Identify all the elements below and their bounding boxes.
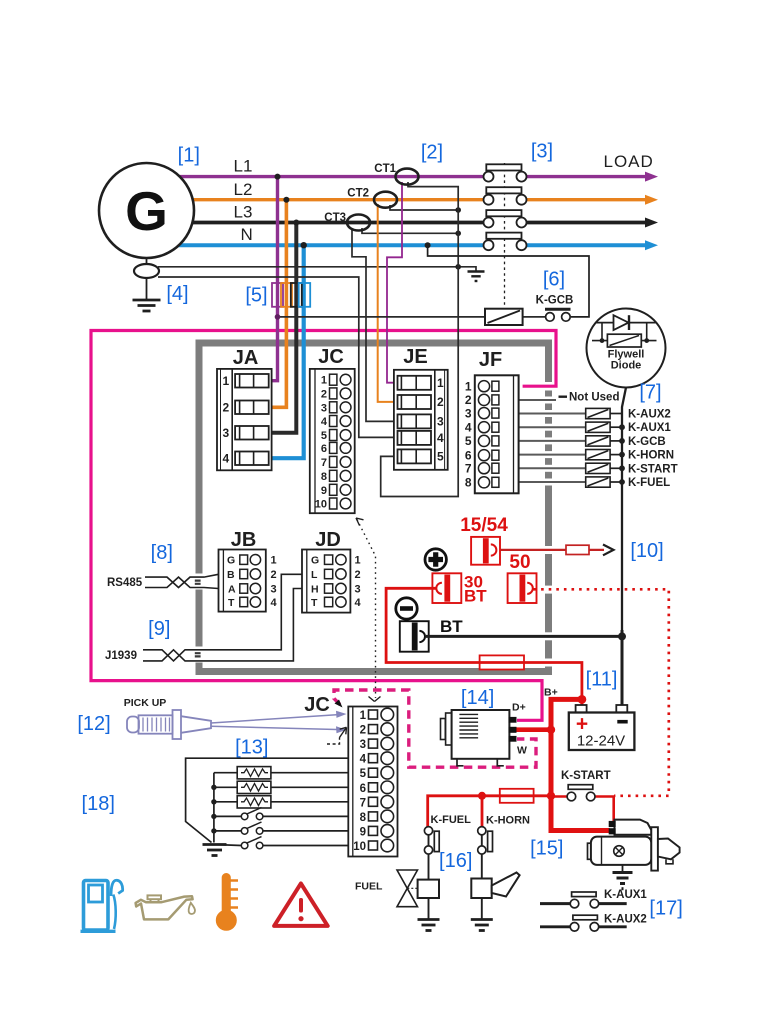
wire+ground below fuel solenoid xyxy=(428,898,430,919)
wire: L1 drop to JA1 through fuse xyxy=(272,177,278,381)
wire: CT3 secondary S2 to JE3 xyxy=(352,228,395,421)
connector JB xyxy=(219,550,266,612)
wire: JF7 to K-START coil xyxy=(519,467,586,469)
reference arrow 13 xyxy=(327,727,347,744)
junction L1 drop xyxy=(275,174,281,180)
resistor R3 (sender) to JC7 xyxy=(214,801,348,803)
svg-text:L1: L1 xyxy=(234,157,253,176)
LOAD arrow L3 xyxy=(645,218,658,228)
svg-text:8: 8 xyxy=(465,476,472,490)
contactor GCB pole 4 xyxy=(484,233,527,251)
wire: diode circle to relay common rail xyxy=(622,388,626,706)
svg-text:FUEL: FUEL xyxy=(355,881,383,893)
terminal 15/54 xyxy=(460,515,508,565)
svg-text:G: G xyxy=(227,555,235,567)
wire: CT2 secondary S2 to JE2 (orange) xyxy=(378,204,395,402)
alternator G2 xyxy=(441,710,510,766)
connector JA xyxy=(217,369,272,470)
coil K-FUEL xyxy=(586,477,622,487)
wire: K-GCB coil to contact xyxy=(523,316,546,318)
svg-text:[11]: [11] xyxy=(586,669,618,691)
wire: CT2 secondary S1 to CT common xyxy=(390,205,458,210)
svg-text:G: G xyxy=(311,555,319,567)
svg-text:T: T xyxy=(311,597,318,609)
node R3 on rail xyxy=(211,799,216,804)
wire: JF3 to K-AUX2 coil xyxy=(519,413,586,415)
arrowhead [10] xyxy=(603,545,614,556)
starter motor M1 xyxy=(588,820,680,871)
svg-text:G: G xyxy=(125,180,168,242)
LOAD arrow N xyxy=(645,240,658,250)
svg-text:[10]: [10] xyxy=(630,540,663,562)
generator phase line L3 xyxy=(146,221,647,225)
node: BT joins minus rail xyxy=(618,632,626,640)
svg-text:[5]: [5] xyxy=(245,285,267,307)
svg-text:1: 1 xyxy=(465,379,472,393)
contact K-GCB (auxiliary) xyxy=(545,309,571,321)
svg-text:JE: JE xyxy=(403,346,427,368)
shield marks J1939 xyxy=(195,653,201,656)
svg-text:BT: BT xyxy=(440,617,463,636)
svg-text:2: 2 xyxy=(355,569,361,581)
svg-text:[6]: [6] xyxy=(543,269,565,291)
ground symbol generator xyxy=(133,300,161,311)
coil K-GCB relay xyxy=(586,436,622,446)
generator neutral measuring ellipse xyxy=(134,264,159,278)
wire: JC4 to ground (sender common) xyxy=(186,758,349,842)
white gaps on controller border for wire crossings xyxy=(194,382,555,667)
node: alternator B+ tap xyxy=(547,726,555,734)
svg-text:K-START: K-START xyxy=(628,463,678,475)
svg-text:7: 7 xyxy=(321,457,327,469)
wire: JF6 to K-HORN coil xyxy=(519,454,586,456)
svg-text:[18]: [18] xyxy=(82,793,115,815)
node S1 on rail xyxy=(211,814,216,819)
svg-text:K-HORN: K-HORN xyxy=(486,815,530,827)
svg-text:8: 8 xyxy=(360,812,367,824)
battery BT1 12-24V xyxy=(569,705,635,750)
wire: CT1 secondary S2 to JE1 (dark purple) xyxy=(387,182,402,383)
svg-text:5: 5 xyxy=(437,450,444,464)
node: battery plus junction xyxy=(578,695,587,704)
svg-text:CT1: CT1 xyxy=(374,163,396,175)
starter bolt xyxy=(614,846,625,857)
svg-text:2: 2 xyxy=(271,569,277,581)
connector JE xyxy=(394,370,448,470)
svg-text:6: 6 xyxy=(465,448,472,462)
svg-text:50: 50 xyxy=(509,552,530,573)
terminal BT xyxy=(400,617,463,652)
wire: N drop to JA4 through fuse xyxy=(272,245,304,458)
wire: K-START feed row with inline fuse xyxy=(428,796,551,827)
svg-text:5: 5 xyxy=(360,768,367,780)
connector JC main xyxy=(310,369,355,513)
svg-text:JD: JD xyxy=(315,529,341,551)
svg-text:1: 1 xyxy=(355,555,361,567)
svg-text:K-AUX2: K-AUX2 xyxy=(604,914,647,926)
pickup wire arrowheads xyxy=(336,711,347,718)
coil K-HORN xyxy=(586,450,622,460)
wire: ellipse to generator ground xyxy=(146,278,148,299)
fuse F3 (L3) in block 5 xyxy=(291,283,302,307)
contact K-AUX2 xyxy=(540,925,627,928)
svg-text:K-AUX1: K-AUX1 xyxy=(604,889,647,901)
svg-text:L2: L2 xyxy=(234,180,253,199)
pickup sensor MPU xyxy=(127,710,337,739)
fuel stop solenoid xyxy=(418,880,439,898)
svg-text:9: 9 xyxy=(321,485,327,497)
svg-text:[7]: [7] xyxy=(639,382,661,404)
svg-text:1: 1 xyxy=(223,374,230,388)
connector JD xyxy=(302,550,350,613)
svg-text:K-FUEL: K-FUEL xyxy=(431,814,472,826)
svg-text:3: 3 xyxy=(437,415,444,429)
svg-text:3: 3 xyxy=(321,402,327,414)
svg-text:K-GCB: K-GCB xyxy=(628,436,666,448)
wire: battery minus heavy segment xyxy=(621,630,624,705)
ground symbol sender network xyxy=(203,845,227,856)
svg-text:7: 7 xyxy=(360,797,366,809)
connector JC engine side (bottom) xyxy=(348,707,397,857)
resistor R2 (sender) to JC6 xyxy=(214,786,348,788)
switch S1 to JC8 xyxy=(214,815,348,817)
svg-text:9: 9 xyxy=(360,826,366,838)
svg-text:[8]: [8] xyxy=(151,542,173,564)
svg-text:[15]: [15] xyxy=(530,838,563,860)
node: CT3 on common xyxy=(455,231,461,237)
svg-text:15/54: 15/54 xyxy=(460,515,508,536)
svg-text:B+: B+ xyxy=(544,687,558,699)
wire: generator measurement ellipse upper line to ground xyxy=(158,267,476,271)
resistor R1 (sender) to JC5 xyxy=(214,772,348,774)
svg-text:J1939: J1939 xyxy=(105,650,137,662)
nodes on relay common rail xyxy=(619,424,625,485)
horn H1 xyxy=(471,873,519,899)
svg-text:K-AUX2: K-AUX2 xyxy=(628,409,671,421)
svg-text:2: 2 xyxy=(223,401,230,415)
icon fuel pump xyxy=(81,880,123,931)
svg-text:2: 2 xyxy=(360,725,366,737)
contact K-FUEL xyxy=(428,835,430,880)
svg-text:D+: D+ xyxy=(512,702,526,714)
wire: JF5 to K-GCB coil xyxy=(519,440,586,442)
dashed mechanical link contactor to K-GCB coil xyxy=(504,163,506,308)
svg-text:B: B xyxy=(227,569,235,581)
svg-text:4: 4 xyxy=(321,416,328,428)
svg-text:4: 4 xyxy=(223,452,230,466)
svg-text:JB: JB xyxy=(231,529,257,551)
wire: JF4 to K-AUX1 coil xyxy=(519,426,586,428)
contact K-AUX1 xyxy=(540,902,627,905)
CT3 current transformer xyxy=(347,215,370,231)
svg-text:4: 4 xyxy=(271,597,278,609)
fuse F1 (L1) in block 5 xyxy=(272,283,283,307)
wire: sender rail xyxy=(213,773,215,843)
svg-text:4: 4 xyxy=(465,420,472,434)
contactor GCB pole 2 xyxy=(484,187,527,205)
coil K-START xyxy=(586,463,622,473)
wire: 50 dotted red to K-START branch xyxy=(534,589,669,796)
alternator terminals D+ B+ W xyxy=(509,717,517,742)
svg-text:3: 3 xyxy=(465,406,472,420)
arrowhead of dashed W path at JC1 xyxy=(335,700,343,708)
svg-text:5: 5 xyxy=(321,430,327,442)
svg-text:7: 7 xyxy=(465,461,472,475)
ground symbol starter xyxy=(622,865,624,871)
svg-text:L3: L3 xyxy=(234,203,253,222)
svg-text:10: 10 xyxy=(315,499,327,511)
contact K-HORN xyxy=(481,835,483,879)
wire: JF8 to K-FUEL coil xyxy=(519,481,586,483)
svg-text:K-HORN: K-HORN xyxy=(628,450,674,462)
svg-text:K-FUEL: K-FUEL xyxy=(628,477,670,489)
CT2 current transformer xyxy=(374,192,397,208)
starter terminal blocks xyxy=(609,821,616,827)
controller main unit box xyxy=(199,343,549,672)
svg-text:5: 5 xyxy=(465,434,472,448)
inline fuse on [10] wire xyxy=(566,545,589,554)
wire: 15/54 to [10] arrow xyxy=(496,549,604,551)
svg-text:[2]: [2] xyxy=(421,142,443,164)
svg-text:[13]: [13] xyxy=(235,737,268,759)
wire: pink wire JF1 to alternator D+ (controller frame loop) xyxy=(91,331,556,721)
wire: generator lower measurement line to JE4 xyxy=(158,277,395,437)
junction L3 drop xyxy=(293,220,299,226)
switch S3 to JC10 xyxy=(214,845,348,846)
svg-text:1: 1 xyxy=(437,376,444,390)
svg-text:K-AUX1: K-AUX1 xyxy=(628,422,671,434)
flywheel diode module U1 circle xyxy=(587,309,666,388)
CT1 current transformer xyxy=(396,169,419,185)
svg-text:K-START: K-START xyxy=(561,770,611,782)
svg-text:JF: JF xyxy=(479,349,502,371)
svg-text:LOAD: LOAD xyxy=(604,152,654,171)
svg-text:[9]: [9] xyxy=(148,618,170,640)
wire: generator to measuring ellipse xyxy=(146,258,148,265)
node S2 on rail xyxy=(211,828,216,833)
svg-text:2: 2 xyxy=(465,393,472,407)
svg-text:6: 6 xyxy=(360,783,366,795)
black text labels top xyxy=(234,152,654,244)
svg-text:RS485: RS485 xyxy=(107,577,143,589)
svg-text:[17]: [17] xyxy=(649,898,682,920)
svg-text:2: 2 xyxy=(437,395,444,409)
node: CT2 on common xyxy=(455,207,461,213)
svg-text:4: 4 xyxy=(360,754,367,766)
svg-text:[14]: [14] xyxy=(461,687,494,709)
node: N tap for K-GCB xyxy=(425,242,431,248)
inline fuse main battery xyxy=(480,655,524,669)
blue reference labels xyxy=(77,141,682,920)
coil K-AUX2 xyxy=(586,408,622,418)
wire: JF2 to Not Used xyxy=(519,399,556,401)
wire: battery plus to B+ and starter (thick red) xyxy=(551,699,610,830)
terminal 50 xyxy=(508,552,537,603)
node: K-HORN branch xyxy=(478,792,486,800)
coil K-GCB xyxy=(485,309,523,325)
svg-text:T: T xyxy=(228,597,235,609)
plus indicator symbol xyxy=(425,549,446,570)
svg-text:4: 4 xyxy=(355,597,362,609)
fuel valve symbol xyxy=(397,870,418,907)
svg-text:PICK UP: PICK UP xyxy=(124,697,167,709)
minus indicator symbol xyxy=(396,598,417,619)
generator neutral line N xyxy=(146,243,647,247)
svg-text:W: W xyxy=(517,745,527,757)
LOAD arrow L1 xyxy=(645,172,658,182)
wire: alternator B+ stub xyxy=(516,727,551,732)
inline fuse starter aux xyxy=(500,789,534,803)
svg-text:3: 3 xyxy=(271,584,277,596)
node: CT common joins measurement line xyxy=(455,264,461,270)
contactor GCB pole 1 xyxy=(484,164,527,181)
svg-text:4: 4 xyxy=(437,431,444,445)
connector JF xyxy=(475,375,519,493)
svg-text:3: 3 xyxy=(355,584,361,596)
icon warning triangle xyxy=(274,884,328,926)
contactor GCB pole 3 xyxy=(484,210,527,227)
icon oil can xyxy=(136,895,195,919)
wire: K-GCB coil to L1 tap xyxy=(278,316,486,318)
generator phase line L2 xyxy=(146,198,647,201)
wire: CT3 secondary S1 to CT common xyxy=(362,228,458,233)
coil K-AUX1 xyxy=(586,422,622,432)
svg-text:[16]: [16] xyxy=(439,850,472,872)
wire: L2 drop to JA2 through fuse xyxy=(272,200,287,408)
svg-text:[12]: [12] xyxy=(77,713,110,735)
wire: RS485 pair to JB xyxy=(145,574,219,588)
svg-text:3: 3 xyxy=(360,739,366,751)
svg-text:[4]: [4] xyxy=(166,283,188,305)
generator phase line L1 xyxy=(146,175,647,178)
wire: magenta dashed W-signal path JC to alternator W xyxy=(334,690,536,767)
svg-text:3: 3 xyxy=(223,426,230,440)
wire+ground below horn xyxy=(481,898,483,919)
shield marks RS485 xyxy=(195,581,201,584)
icon thermometer xyxy=(216,874,238,931)
wire: L3 drop to JA3 through fuse xyxy=(272,223,297,433)
svg-text:2: 2 xyxy=(321,388,327,400)
generator G1 circle xyxy=(99,163,194,258)
node: K-START row on thick vertical xyxy=(547,792,555,800)
svg-text:[1]: [1] xyxy=(178,145,200,167)
wire: K-START to starter solenoid xyxy=(551,795,568,798)
LOAD arrow L2 xyxy=(645,195,658,205)
svg-text:8: 8 xyxy=(321,471,327,483)
fuse F2 (L2) in block 5 xyxy=(281,283,292,307)
fuse F4 (N) in block 5 xyxy=(299,283,311,307)
svg-text:A: A xyxy=(228,584,236,596)
svg-text:[3]: [3] xyxy=(531,141,553,163)
dotted correspondence arrow JC to JC xyxy=(356,518,381,702)
svg-text:10: 10 xyxy=(353,841,366,853)
svg-text:1: 1 xyxy=(360,710,367,722)
svg-text:Not Used: Not Used xyxy=(569,392,619,404)
svg-text:CT2: CT2 xyxy=(347,188,369,200)
wire: CT1 secondary S1 to CT common vertical xyxy=(381,182,459,497)
switch S2 to JC9 xyxy=(214,830,348,832)
terminal 30 BT xyxy=(432,573,487,606)
svg-text:L: L xyxy=(311,569,318,581)
wire: BT to battery minus rail xyxy=(426,635,622,638)
svg-text:1: 1 xyxy=(321,375,327,387)
node R2 on rail xyxy=(211,785,216,790)
relay name labels xyxy=(569,392,678,489)
svg-text:12-24V: 12-24V xyxy=(577,733,625,750)
svg-text:CT3: CT3 xyxy=(324,212,346,224)
wire: J1939 pair to JD xyxy=(143,574,302,661)
wire: 30BT to battery plus feed xyxy=(386,588,582,706)
svg-text:JC: JC xyxy=(304,694,330,716)
svg-text:1: 1 xyxy=(271,555,277,567)
svg-text:JC: JC xyxy=(318,346,344,368)
svg-text:BT: BT xyxy=(464,587,487,606)
ground symbol near K-GCB loop xyxy=(468,272,485,282)
junction L2 drop xyxy=(283,197,289,203)
svg-text:Diode: Diode xyxy=(611,360,642,372)
node: L1 tap for K-GCB coil xyxy=(275,314,281,320)
wire: N to K-GCB contact loop (box 6) xyxy=(428,245,589,317)
contact K-START xyxy=(567,785,595,801)
junction N drop xyxy=(301,242,307,248)
svg-text:K-GCB: K-GCB xyxy=(536,295,574,307)
svg-text:6: 6 xyxy=(321,443,327,455)
svg-text:N: N xyxy=(241,225,253,244)
svg-text:JA: JA xyxy=(233,347,259,369)
svg-text:H: H xyxy=(311,584,319,596)
